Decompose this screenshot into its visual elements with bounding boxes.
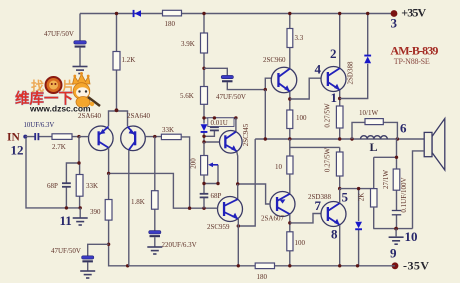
wire 2SC960 emitter: [289, 91, 291, 110]
diode D1 on rail: [133, 10, 141, 17]
capacitor 0.1UF/100V: [392, 211, 401, 215]
resistor 5.6K: [201, 87, 208, 105]
node junction 3.9K bottom: [202, 67, 205, 70]
capacitor 10UF input: [35, 133, 38, 140]
capacitor 47UF/50V bottom: [82, 256, 94, 263]
node junction D4 top: [357, 187, 360, 190]
node junction emitter / diode branch: [338, 97, 341, 100]
transistor 2SD388 no.1: [321, 67, 346, 92]
wire pot wiper: [204, 165, 218, 184]
svg-text:8: 8: [331, 227, 338, 242]
input terminal IN: [23, 135, 27, 139]
terminal +35V: [391, 10, 398, 17]
wire Q2 collector to bus: [128, 150, 130, 266]
wire 0.27 upper bottom: [339, 128, 341, 139]
svg-text:2K: 2K: [358, 193, 366, 202]
svg-text:7: 7: [315, 198, 322, 213]
node junctions on output rail: [264, 137, 267, 140]
svg-text:68P: 68P: [211, 192, 222, 200]
svg-text:AM-B-839: AM-B-839: [390, 44, 438, 58]
wire VAS output rail: [255, 138, 424, 140]
wire 2SD388 no.1 emitter: [339, 90, 341, 106]
svg-text:3.9K: 3.9K: [181, 40, 195, 48]
svg-text:2.7K: 2.7K: [52, 143, 66, 151]
svg-text:3: 3: [391, 16, 398, 31]
capacitor 68P right: [200, 194, 209, 198]
resistor 2.7K: [52, 134, 72, 140]
diode D4: [355, 222, 362, 230]
svg-text:47UF/50V: 47UF/50V: [51, 247, 81, 255]
node junctions on bus: [126, 264, 129, 267]
node junction input/base: [77, 135, 80, 138]
capacitor 0.01U: [210, 127, 219, 130]
svg-text:0.27/5W: 0.27/5W: [324, 147, 332, 172]
svg-text:100: 100: [295, 239, 306, 247]
wire 0.27 lower bottom: [339, 176, 341, 189]
resistor 0.27/5W lower: [336, 152, 343, 176]
svg-text:2SD388: 2SD388: [347, 61, 355, 84]
resistor 33K horizontal: [161, 134, 181, 139]
L / 10 1W parallel box: [352, 122, 397, 139]
svg-text:1: 1: [331, 90, 338, 105]
svg-text:2SA607: 2SA607: [261, 215, 284, 223]
svg-text:47UF/50V: 47UF/50V: [216, 93, 246, 101]
svg-text:1.2K: 1.2K: [122, 56, 136, 64]
svg-text:33K: 33K: [162, 126, 174, 134]
svg-text:2SC945: 2SC945: [242, 123, 250, 146]
node junction Q1 collector: [107, 172, 110, 175]
wire 33K right end down: [181, 137, 189, 208]
node junction diode rail: [366, 12, 369, 15]
svg-text:3.3: 3.3: [295, 34, 304, 42]
wire vertical 265 down to VAS rail: [264, 90, 266, 139]
svg-text:180: 180: [165, 20, 176, 28]
node junctions on 0.01U line: [202, 116, 205, 119]
transistor 2SA607: [270, 192, 295, 217]
svg-text:10: 10: [405, 229, 418, 244]
wire 3.9K column: [203, 14, 205, 118]
node junction zobel ground: [394, 227, 398, 231]
wire 2SC959 collector: [237, 184, 239, 199]
wire 2SD388 no.2 base feed: [290, 214, 321, 223]
svg-text:10UF/6.3V: 10UF/6.3V: [24, 122, 55, 129]
svg-text:1.8K: 1.8K: [131, 198, 145, 206]
wire 2SA607 collector: [289, 214, 291, 232]
wire 2SD388 no.1 collector: [339, 14, 341, 69]
wire 2SC945 emitter: [237, 151, 238, 184]
node junction output drive: [338, 187, 341, 190]
capacitor 220UF/6.3V: [149, 231, 161, 238]
svg-text:4: 4: [315, 62, 322, 77]
transistor 2SA640 no.2: [121, 126, 146, 151]
svg-text:100: 100: [296, 114, 307, 122]
ground G5: [389, 237, 404, 244]
svg-text:220UF/6.3V: 220UF/6.3V: [162, 241, 197, 249]
node junction Q2 base: [153, 135, 156, 138]
svg-text:2SC960: 2SC960: [263, 56, 286, 64]
svg-text:-35V: -35V: [403, 258, 429, 272]
node junction V1 emitter: [237, 224, 240, 227]
wire 2SD388 no.2 emitter to bus: [339, 225, 341, 266]
wire feedback path Q1 collector to 2SC959 base: [109, 173, 218, 208]
wire V1 from rail down to 2SC959 emitter: [238, 139, 255, 226]
diode D3: [201, 124, 208, 133]
wire Q1 base: [79, 136, 89, 138]
wire 68P/33K branch: [66, 137, 79, 208]
wire 1.8K column: [154, 137, 156, 247]
svg-text:12: 12: [11, 143, 24, 158]
capacitor 47UF/50V mid: [221, 75, 233, 82]
resistor 10: [287, 156, 293, 174]
resistor 390: [105, 200, 112, 221]
svg-text:390: 390: [90, 208, 101, 216]
wire diode branch +35: [340, 14, 368, 99]
transistor 2SC945: [220, 131, 243, 154]
svg-text:200: 200: [189, 158, 197, 169]
svg-text:10/1W: 10/1W: [359, 109, 378, 117]
svg-text:2SC959: 2SC959: [207, 223, 230, 231]
wire pot column: [203, 142, 205, 208]
ground G2: [79, 208, 81, 218]
resistor 33K vertical: [76, 175, 83, 197]
svg-text:www.dzsc.com: www.dzsc.com: [29, 104, 91, 114]
node junction 2SC960 emitter: [288, 97, 291, 100]
wire 47UF bottom cap branch: [88, 244, 109, 271]
node junction 390 bottom: [107, 243, 110, 246]
svg-text:9: 9: [390, 245, 397, 260]
node junction 3.9K top rail: [202, 12, 205, 15]
node junction emitter pair: [115, 108, 119, 112]
wire Q2 base to 33K: [145, 136, 161, 138]
wire 3.3 column / 2SC960 collector: [289, 14, 291, 69]
wire drive node to 2K: [340, 157, 374, 188]
svg-text:0.27/5W: 0.27/5W: [324, 103, 332, 128]
terminal -35V: [392, 262, 399, 269]
svg-text:6: 6: [400, 121, 407, 136]
wire speaker return: [413, 151, 425, 229]
svg-text:47UF/50V: 47UF/50V: [44, 30, 74, 38]
ground G4: [80, 271, 95, 278]
wire 0.01U node: [204, 118, 236, 142]
node junction zobel top: [395, 156, 398, 159]
node junction 3.3 rail: [288, 12, 291, 15]
diode D2: [364, 55, 371, 64]
wire 47UF cap branch top-left: [79, 14, 81, 67]
node junction base tap 2SC960: [264, 88, 267, 91]
wire 10 bottom to 2SA607 emitter: [289, 174, 291, 194]
watermark badge: [46, 77, 62, 93]
watermark mascot: [73, 72, 101, 108]
wire top +35V rail: [80, 13, 394, 15]
svg-text:33K: 33K: [86, 182, 98, 190]
resistor 180 top: [163, 10, 182, 16]
node junction 2SA607 collector: [288, 221, 291, 224]
resistor 2K: [371, 189, 378, 207]
svg-text:0.1UF/100V: 0.1UF/100V: [400, 177, 408, 212]
transistor 2SC959: [218, 197, 243, 222]
wire 2SD388 no.2 collector: [339, 189, 341, 204]
svg-text:27/1W: 27/1W: [382, 170, 390, 189]
wire input line: [25, 136, 79, 138]
wire 2SD388 no.1 base feed: [290, 78, 321, 99]
wire zobel branch: [373, 139, 412, 229]
resistor 3.9K: [201, 33, 208, 53]
svg-text:+35V: +35V: [401, 5, 426, 19]
svg-text:2SA640: 2SA640: [127, 112, 150, 120]
wire input down to ground bus: [26, 138, 80, 208]
resistor 180 bottom: [255, 263, 274, 269]
resistor 1.2K: [113, 52, 120, 71]
node junctions on 959 base line: [188, 207, 191, 210]
potentiometer 200: [201, 156, 208, 176]
svg-text:L: L: [370, 140, 378, 154]
transistor 2SA640 no.1: [89, 126, 114, 151]
wire 2SA607 base path: [238, 184, 270, 204]
wire 1.2K column: [109, 14, 128, 127]
wire 2SC945 collector riser: [235, 118, 237, 132]
node junctions ground bus: [65, 206, 68, 209]
pot wiper arrow: [208, 163, 218, 168]
wire diode D4 branch: [358, 189, 360, 266]
wire 2K bottom: [373, 207, 375, 229]
wire 100 lower bottom: [289, 251, 291, 266]
svg-text:2: 2: [330, 46, 337, 61]
resistor 100 upper: [287, 110, 293, 129]
wire 2SC959 emitter to bus: [237, 219, 239, 266]
resistor 1.8K: [152, 191, 159, 210]
capacitor 47UF/50V top-left: [74, 41, 87, 48]
svg-text:TP-N88-SE: TP-N88-SE: [394, 57, 430, 66]
svg-text:11: 11: [60, 213, 72, 228]
wire 100 bottom to VAS rail: [289, 129, 291, 140]
node junction 68P/33K: [77, 161, 80, 164]
svg-text:5: 5: [342, 190, 349, 205]
resistor 10/1W: [365, 119, 383, 125]
svg-text:10: 10: [275, 163, 283, 171]
capacitor 68P left: [62, 183, 71, 187]
ground G1: [73, 67, 88, 74]
label 0.01U boxed: [208, 118, 234, 127]
node junction 2SD388 rail: [338, 12, 341, 15]
inductor L coil: [361, 136, 388, 139]
resistor 3.3: [287, 29, 293, 48]
wire Q1 collector: [108, 148, 110, 174]
speaker: [424, 119, 445, 171]
svg-text:68P: 68P: [47, 182, 58, 190]
resistor 100 lower: [287, 232, 293, 251]
transistor 2SD388 no.2: [321, 202, 346, 227]
svg-text:0.01U: 0.01U: [211, 119, 228, 127]
svg-text:180: 180: [257, 273, 268, 281]
resistor 0.27/5W upper: [336, 106, 343, 128]
wire bottom bus: [109, 244, 395, 265]
ground G3: [147, 247, 162, 254]
node junction 2SC945em/2SC959coll: [236, 182, 239, 185]
svg-text:5.6K: 5.6K: [180, 92, 194, 100]
resistor 27/1W: [393, 169, 400, 190]
transistor 2SC960: [271, 67, 297, 93]
wire 390 column: [108, 173, 110, 244]
wire rail to 10 and 0.27 lower top: [290, 139, 340, 156]
node junction 1.2K top: [115, 12, 118, 15]
node junctions pot bottom: [202, 182, 205, 185]
wire 47UF/50V mid branch: [204, 68, 271, 89]
